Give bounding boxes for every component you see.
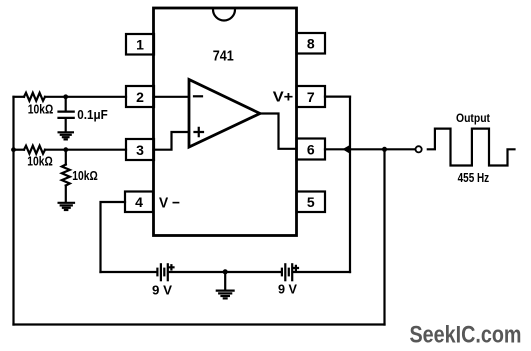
svg-text:10kΩ: 10kΩ (72, 169, 98, 183)
wire pin3 left segment (14, 149, 25, 151)
pin 4 box (125, 192, 153, 213)
ground under C1 (59, 132, 73, 139)
svg-text:V+: V+ (273, 88, 294, 105)
wire pin3 to op-amp plus input (154, 132, 190, 150)
wire pin6 output horizontal (325, 148, 415, 150)
output terminal open circle (416, 146, 422, 152)
wire R2 to pin3 box (45, 149, 126, 151)
battery B2 9V (282, 264, 298, 280)
wire R1 to pin2 box (45, 96, 126, 98)
pin 8 box (297, 33, 326, 54)
battery rail left segment (101, 271, 157, 273)
node dot ground junction (223, 269, 228, 274)
ground center symbol (217, 291, 234, 299)
svg-text:4: 4 (135, 194, 143, 210)
svg-text:10kΩ: 10kΩ (27, 154, 53, 168)
ground stem center (224, 272, 226, 290)
IC U1 741 package body (154, 8, 297, 236)
wire left feedback rail vertical (12, 97, 14, 325)
svg-text:0.1μF: 0.1μF (77, 108, 108, 122)
pin 2 box (126, 86, 154, 107)
svg-text:SeekIC.com: SeekIC.com (410, 322, 522, 349)
wire op-amp output to pin6 (259, 114, 297, 149)
svg-text:8: 8 (307, 36, 315, 52)
capacitor C1 bottom stem (65, 120, 67, 132)
capacitor C1 top plate (59, 110, 74, 112)
op-amp A1 triangle (189, 80, 260, 148)
svg-text:455 Hz: 455 Hz (458, 171, 490, 185)
resistor R3 top stub (65, 150, 67, 165)
op-amp non-inverting input plus sign (195, 128, 204, 136)
node dot junction R2/R3 (63, 147, 68, 152)
resistor R1 10k zigzag (24, 93, 45, 101)
battery B1 9V (157, 264, 173, 280)
wire pin4 to left then down (101, 202, 126, 272)
arrowhead at supply crossing (342, 145, 350, 154)
wire bottom feedback horizontal (14, 323, 385, 325)
wire feedback vertical up to output node (383, 149, 385, 324)
capacitor C1 top stem (65, 97, 67, 110)
wire pin7 to supply vertical (325, 95, 350, 97)
node dot junction R1/C1 (63, 94, 68, 99)
resistor R2 10k zigzag (24, 146, 45, 154)
IC U1 index notch (213, 10, 235, 21)
svg-text:10kΩ: 10kΩ (28, 103, 54, 117)
pin 7 box (297, 86, 326, 107)
svg-text:Output: Output (456, 111, 490, 125)
pin 3 box (126, 139, 154, 160)
wire pin2 left segment (14, 96, 25, 98)
resistor R3 bottom stub (65, 186, 67, 203)
resistor R3 10k vertical zigzag (62, 165, 70, 186)
battery rail right segment (293, 271, 350, 273)
svg-text:7: 7 (307, 89, 315, 105)
ground under R3 (59, 203, 74, 210)
svg-text:9 V: 9 V (152, 283, 173, 297)
svg-text:6: 6 (307, 142, 315, 158)
node dot output feedback junction (382, 147, 387, 152)
node dot junction left rail pin3 wire (11, 147, 16, 152)
pin 1 box (126, 34, 154, 55)
svg-text:3: 3 (136, 142, 144, 158)
pin 5 box (297, 192, 326, 213)
svg-text:2: 2 (136, 89, 144, 105)
capacitor C1 bottom plate (59, 117, 74, 119)
square wave symbol (428, 129, 515, 166)
battery rail middle segment (169, 271, 281, 273)
wire V+ supply vertical pin7 to rail (349, 97, 351, 272)
op-amp inverting input minus sign (194, 95, 202, 97)
pin 6 box (297, 139, 326, 160)
svg-text:741: 741 (213, 49, 234, 65)
wire pin2 to op-amp minus input (154, 96, 190, 98)
svg-text:V −: V − (159, 195, 180, 212)
svg-text:1: 1 (136, 37, 144, 53)
svg-text:5: 5 (307, 194, 315, 210)
svg-text:9 V: 9 V (278, 282, 298, 296)
